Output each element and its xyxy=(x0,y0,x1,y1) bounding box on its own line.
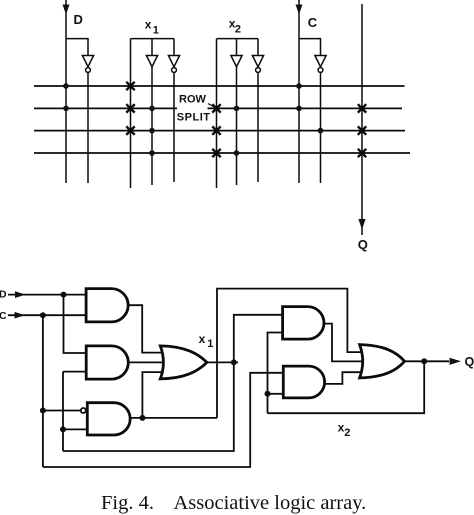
wire AND2 output to OR1 mid xyxy=(128,361,166,363)
contact X x1left row1 xyxy=(126,82,134,90)
wire x1 to AND4 top input xyxy=(234,315,283,363)
wire AND1 output to OR1 top xyxy=(128,305,165,352)
node dot Cbar row3 xyxy=(318,128,324,134)
wire x1 output xyxy=(207,361,238,363)
wire row split pointer xyxy=(208,104,215,108)
wire C bottom feedback to AND5 top xyxy=(43,373,283,467)
node dot C row2 xyxy=(296,106,302,112)
inverter x1 true driver xyxy=(146,56,157,67)
bubble AND3 input xyxy=(81,408,86,413)
node dot x1 branch xyxy=(231,359,237,365)
contact X Q row4 xyxy=(358,149,366,157)
wire x2 true drop xyxy=(236,39,238,56)
svg-text:x: x xyxy=(145,18,152,32)
bubble C-bar inverter xyxy=(318,68,323,73)
wire x2 left column xyxy=(216,39,218,188)
wire x2 comp drop xyxy=(257,39,259,56)
inverter D-bar xyxy=(82,56,93,67)
node dot C row1 xyxy=(296,83,302,89)
wire x1 true column xyxy=(151,67,153,185)
svg-text:C: C xyxy=(308,15,318,30)
inverter C-bar xyxy=(315,56,326,67)
wire row 2 left segment xyxy=(34,107,177,109)
node dot D row2 xyxy=(63,106,69,112)
svg-text:Q: Q xyxy=(465,355,474,369)
svg-text:2: 2 xyxy=(235,24,241,36)
contact X x1left row2 xyxy=(126,104,134,112)
node dot x2 rail to AND5 xyxy=(265,391,271,397)
wire x2 comp column xyxy=(257,72,259,182)
arrow Q right xyxy=(450,358,462,365)
wire x1 feedback rail xyxy=(62,372,64,451)
node dot x1true row3 xyxy=(149,128,155,134)
node dot x1true row4 xyxy=(149,150,155,156)
wire x2 rail to AND5 bottom input xyxy=(268,393,284,395)
op OR1 gate xyxy=(160,346,207,379)
wire C input xyxy=(8,314,86,316)
wire x1 true drop xyxy=(151,39,153,56)
wire D input vertical xyxy=(65,0,67,183)
wire AND5 output to OR2 bottom xyxy=(325,372,366,384)
wire C-bar column xyxy=(320,72,322,183)
wire AND3 to OR1 bottom xyxy=(142,372,165,418)
svg-text:Q: Q xyxy=(358,237,368,252)
wire x2 feedback from Q xyxy=(268,361,425,413)
wire row 1 xyxy=(34,85,405,87)
svg-text:D: D xyxy=(0,289,7,301)
contact X x2left row3 xyxy=(212,126,220,134)
node x1 bar xyxy=(131,38,175,40)
contact X x1left row3 xyxy=(126,126,134,134)
op AND1 gate xyxy=(86,289,128,322)
op AND5 gate xyxy=(283,366,324,398)
node dot C rail to AND3 xyxy=(40,408,46,414)
wire x1 bottom feedback xyxy=(63,362,234,451)
op AND3 gate xyxy=(87,403,130,435)
node dot x2true row4 xyxy=(234,150,240,156)
wire x1 rail to AND3 bottom input xyxy=(63,428,87,430)
wire x1 left column xyxy=(130,39,132,188)
node x2 bar xyxy=(217,38,259,40)
contact X Q row2 xyxy=(358,104,366,112)
node dot D branch xyxy=(61,292,67,298)
wire x1 comp column xyxy=(173,72,175,182)
node dot D row1 xyxy=(63,83,69,89)
wire D-bar column xyxy=(87,72,89,183)
wire C rail to AND3 bubble xyxy=(43,410,81,412)
wire row 2 right segment xyxy=(208,107,403,109)
node dot AND3 output branch xyxy=(139,415,145,421)
bubble D-bar inverter xyxy=(86,68,91,73)
contact X x2left row4 xyxy=(212,149,220,157)
node dot Q branch xyxy=(421,358,427,364)
node dot x1true row2 xyxy=(149,106,155,112)
wire Q output xyxy=(405,360,449,362)
svg-text:Fig. 4.Associative logic array: Fig. 4.Associative logic array. xyxy=(101,492,366,514)
wire AND3 term to OR2 top xyxy=(217,289,366,418)
arrow Q down xyxy=(358,219,365,230)
op OR2 gate xyxy=(360,345,405,378)
svg-text:1: 1 xyxy=(207,338,213,350)
bubble x2 comp inverter xyxy=(256,68,261,73)
wire AND4 output to OR2 mid xyxy=(324,324,366,362)
arrow C right xyxy=(15,312,26,319)
arrow D down xyxy=(63,5,70,15)
wire Q output column xyxy=(361,4,363,235)
svg-text:D: D xyxy=(74,12,83,27)
wire D input xyxy=(8,294,86,296)
contact X Q row3 xyxy=(358,126,366,134)
node dot x1 rail to AND3 xyxy=(60,426,66,432)
op AND2 gate xyxy=(86,346,128,379)
node dot x2true row2 xyxy=(234,106,240,112)
svg-text:x: x xyxy=(199,332,206,346)
wire C down left rail xyxy=(42,315,44,467)
inverter x1 comp xyxy=(168,56,179,67)
svg-text:C: C xyxy=(0,310,7,322)
op AND4 gate xyxy=(283,307,324,340)
wire C branch to inverter xyxy=(299,39,321,56)
wire AND3 output xyxy=(130,417,217,419)
wire row 3 xyxy=(34,130,405,132)
wire x2 feedback rail xyxy=(268,333,283,414)
wire D branch to inverter xyxy=(66,39,88,56)
wire C input vertical xyxy=(298,0,300,183)
wire D to AND2 top input xyxy=(64,295,87,353)
svg-text:2: 2 xyxy=(344,427,350,439)
inverter x2 true driver xyxy=(231,56,242,67)
arrow C down xyxy=(296,5,303,15)
svg-text:ROW: ROW xyxy=(179,94,207,106)
wire x1 comp drop xyxy=(173,39,175,56)
contact X x2left row2 xyxy=(212,104,220,112)
wire row 4 xyxy=(34,152,410,154)
node dot C branch xyxy=(40,312,46,318)
wire x2 true column xyxy=(236,67,238,185)
wire x1 feedback to AND2 bottom input xyxy=(63,371,86,373)
bubble x1 comp inverter xyxy=(172,68,177,73)
svg-text:SPLIT: SPLIT xyxy=(177,111,211,123)
arrow D right xyxy=(15,291,26,298)
inverter x2 comp xyxy=(252,56,263,67)
svg-text:1: 1 xyxy=(153,25,159,37)
